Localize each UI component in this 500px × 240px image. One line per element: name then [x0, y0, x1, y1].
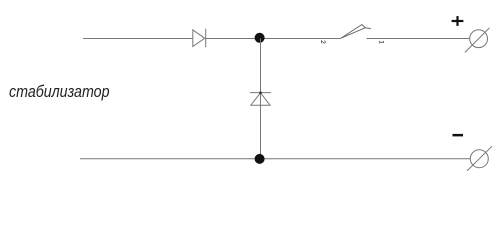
minus sign [453, 134, 464, 137]
svg-text:1: 1 [377, 40, 384, 44]
wire switch to plus terminal [367, 38, 470, 40]
wire node A to switch [261, 38, 341, 40]
node B junction dot [255, 154, 265, 164]
wire top-left segment [83, 38, 193, 40]
plus sign [452, 16, 464, 26]
diode D1 [193, 29, 206, 48]
switch S1 [340, 25, 370, 39]
wire vertical branch [260, 39, 262, 159]
node A junction dot [255, 33, 265, 43]
svg-text:2: 2 [319, 40, 326, 44]
terminal X2 (-) [467, 146, 492, 171]
terminal X1 (+) [465, 28, 490, 53]
apex junction dot on VD2 [259, 91, 262, 94]
svg-text:стабилизатор: стабилизатор [9, 82, 110, 101]
zener diode VD2 [250, 93, 271, 106]
wire diode to node A [206, 38, 261, 40]
wire bottom [80, 158, 470, 160]
